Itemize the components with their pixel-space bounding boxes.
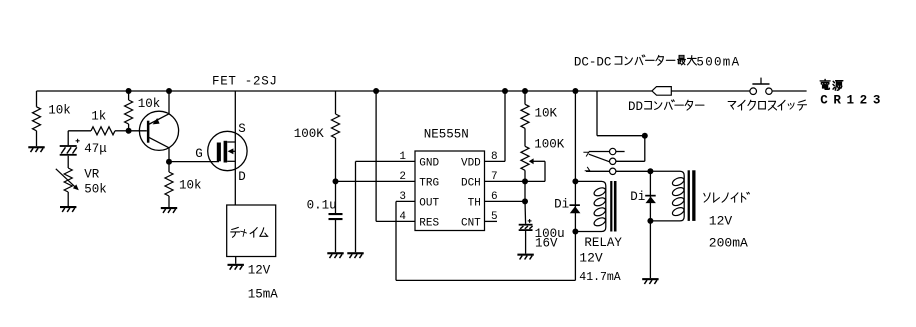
wire pin7 DCH bbox=[485, 180, 526, 182]
wire pin5 CNT stub bbox=[485, 220, 498, 222]
node rail junction at Q1 emitter bbox=[166, 88, 172, 94]
wire base node to Q1 bbox=[129, 130, 147, 132]
solenoid core bbox=[688, 170, 690, 221]
svg-text:16V: 16V bbox=[535, 236, 558, 250]
capacitor C1 47u electrolytic bbox=[60, 145, 77, 147]
node rail junction at pin4 riser bbox=[373, 88, 379, 94]
transistor Q1 PNP bbox=[139, 111, 178, 150]
svg-text:RES: RES bbox=[419, 217, 439, 229]
node solenoid bottom junction bbox=[647, 218, 653, 224]
label saidai kanji bbox=[678, 55, 697, 64]
svg-text:100K: 100K bbox=[294, 127, 325, 141]
node TRG junction bbox=[333, 178, 339, 184]
potentiometer VR1 50k bbox=[64, 168, 72, 192]
wire VR1 to ground bbox=[67, 192, 69, 206]
svg-text:500mA: 500mA bbox=[696, 55, 740, 69]
resistor R6 10K bbox=[521, 104, 529, 128]
label DC-DC konbata katakana bbox=[615, 55, 675, 65]
label chime katakana chaimu bbox=[231, 227, 268, 237]
wire FET source-drain vertical bbox=[234, 91, 236, 205]
node base junction bbox=[126, 128, 132, 134]
capacitor C3 100u electrolytic bbox=[519, 224, 533, 226]
wire C2 to ground bbox=[335, 220, 337, 252]
svg-text:Di: Di bbox=[554, 198, 569, 212]
svg-text:OUT: OUT bbox=[419, 197, 439, 209]
node relay top junction bbox=[572, 178, 578, 184]
svg-text:FET -2SJ: FET -2SJ bbox=[212, 75, 278, 89]
svg-text:RELAY: RELAY bbox=[584, 236, 622, 250]
svg-text:0.1u: 0.1u bbox=[307, 198, 337, 212]
label DD konbata katakana bbox=[645, 100, 704, 110]
node DCH junction bbox=[522, 178, 528, 184]
wire pin6 TH bbox=[485, 200, 526, 202]
svg-text:TRG: TRG bbox=[419, 177, 439, 189]
svg-text:200mA: 200mA bbox=[709, 235, 748, 250]
wire chime to ground bbox=[235, 257, 237, 264]
wire rail to relay common bbox=[597, 91, 645, 136]
node TH junction bbox=[522, 198, 528, 204]
svg-text:DCH: DCH bbox=[461, 177, 481, 189]
wire R6 to VR2 bbox=[524, 128, 526, 146]
svg-text:VDD: VDD bbox=[461, 157, 481, 169]
svg-text:CNT: CNT bbox=[461, 217, 481, 229]
svg-text:G: G bbox=[195, 147, 203, 161]
ground under solenoid bbox=[642, 278, 658, 280]
wire pin4 RES to rail bbox=[376, 91, 415, 221]
svg-text:GND: GND bbox=[419, 157, 439, 169]
node rail junction at 10K chain bbox=[522, 88, 528, 94]
wire rail to R1 bbox=[36, 91, 38, 107]
node relay bottom junction bbox=[572, 229, 578, 235]
ground under C2 bbox=[327, 252, 343, 254]
label solenoid katakana sorenoido bbox=[704, 192, 750, 202]
switch SW1 microswitch bbox=[750, 88, 757, 95]
relay contact blade bbox=[589, 154, 610, 162]
ground under chime bbox=[228, 264, 244, 266]
wire solenoid top to bottom through D2 bbox=[649, 171, 651, 221]
wire C1 top to 1k bbox=[68, 131, 91, 146]
diode D1 Di bbox=[570, 204, 580, 206]
relay contact terminal middle bbox=[610, 158, 616, 164]
wire relay top to bottom through D1 bbox=[574, 181, 576, 231]
wire VR2 to DCH node bbox=[524, 170, 526, 181]
inductor K1 relay coil bbox=[575, 181, 605, 231]
svg-text:12V: 12V bbox=[709, 214, 733, 229]
relay contact NO line bbox=[586, 170, 610, 172]
resistor R4 10k bbox=[165, 172, 173, 196]
svg-text:VR: VR bbox=[84, 168, 100, 182]
svg-text:41.7mA: 41.7mA bbox=[579, 271, 621, 284]
svg-text:DD: DD bbox=[628, 100, 643, 114]
wire R5 to TRG node bbox=[335, 138, 337, 213]
svg-text:10k: 10k bbox=[138, 97, 161, 111]
wire VCC rail bbox=[37, 90, 807, 92]
inductor L1 solenoid coil bbox=[650, 171, 684, 221]
connector DD converter tag bbox=[652, 87, 671, 96]
wire R1 to ground bbox=[36, 131, 38, 146]
wire rail to Q1 emitter bbox=[168, 91, 170, 114]
diode D2 Di bbox=[645, 195, 656, 197]
wire pin8 VDD to rail bbox=[485, 91, 506, 161]
relay contact NC stub bbox=[616, 151, 625, 153]
component chime box bbox=[227, 205, 276, 257]
svg-text:DC-DC: DC-DC bbox=[574, 55, 612, 69]
svg-text:Di: Di bbox=[630, 190, 645, 204]
label U1 pin numbers bbox=[399, 151, 497, 223]
node rail junction at R3 bbox=[126, 88, 132, 94]
wire pin2 TRG bbox=[336, 180, 416, 182]
node Q1 collector junction bbox=[166, 159, 172, 165]
label microswitch katakana maikurosuicchi bbox=[728, 100, 806, 110]
ground under R1 bbox=[28, 146, 44, 148]
node solenoid top junction bbox=[647, 168, 653, 174]
potentiometer VR2 100K bbox=[521, 146, 529, 170]
wire collector node to FET gate bbox=[169, 161, 219, 163]
svg-text:50k: 50k bbox=[84, 183, 107, 197]
wire relay bottom to OUT route bbox=[574, 232, 576, 281]
resistor R2 1k bbox=[91, 127, 115, 135]
wire TH node to C3 bbox=[524, 201, 527, 224]
node rail junction at relay branch bbox=[572, 88, 578, 94]
transistor U2 P-channel MOSFET FET-2SJ bbox=[208, 131, 247, 170]
ground under C3 bbox=[517, 254, 533, 256]
wire DCH to TH node bbox=[524, 181, 526, 201]
svg-text:10k: 10k bbox=[48, 104, 71, 118]
wire R4 to ground bbox=[168, 196, 170, 207]
svg-text:NE555N: NE555N bbox=[424, 127, 469, 141]
wire pin1 GND to ground bbox=[356, 161, 416, 252]
label U1 pin names bbox=[419, 157, 481, 229]
resistor R5 100K bbox=[332, 114, 340, 138]
relay contact terminal bottom bbox=[610, 168, 616, 174]
wire NO contact to solenoid bbox=[616, 170, 651, 172]
label dengen kanji bbox=[820, 80, 843, 91]
wire rail to R6 bbox=[524, 91, 526, 104]
node rail junction at pin8 riser bbox=[502, 88, 508, 94]
wire rail to R3 bbox=[128, 91, 130, 100]
wire Q1 collector to node bbox=[168, 148, 170, 162]
relay contact pivot mark bbox=[583, 152, 588, 156]
wire C1 to VR1 bbox=[67, 156, 69, 168]
svg-text:10K: 10K bbox=[535, 106, 558, 120]
wire rail to R5 bbox=[335, 91, 337, 114]
relay contact NC line bbox=[589, 151, 610, 153]
wire node to R4 bbox=[168, 162, 170, 172]
svg-text:15mA: 15mA bbox=[248, 288, 279, 302]
svg-text:1k: 1k bbox=[91, 109, 106, 123]
wire R2 to base node bbox=[115, 130, 129, 132]
wire R3 to base node bbox=[128, 124, 130, 131]
svg-text:12V: 12V bbox=[579, 250, 603, 265]
wire pin3 OUT route bbox=[396, 201, 575, 280]
wire solenoid bottom to ground bbox=[649, 221, 651, 278]
svg-text:TH: TH bbox=[468, 197, 481, 209]
resistor R3 10k bbox=[125, 100, 133, 124]
relay contact NO mark bbox=[585, 167, 590, 171]
relay contact terminal top bbox=[610, 148, 616, 154]
resistor R1 10k bbox=[33, 107, 41, 131]
relay core bbox=[610, 181, 612, 232]
svg-text:D: D bbox=[238, 170, 246, 184]
svg-text:100K: 100K bbox=[534, 137, 565, 151]
svg-text:CR123: CR123 bbox=[820, 94, 886, 108]
ground under VR1 bbox=[60, 206, 76, 208]
wire feed down to common contact bbox=[616, 136, 645, 162]
wire C3 to ground bbox=[525, 231, 527, 254]
ground under R4 bbox=[161, 207, 177, 209]
wire rail to relay top node bbox=[574, 91, 576, 181]
ground under pin1 bbox=[347, 252, 363, 254]
svg-text:S: S bbox=[238, 122, 246, 136]
svg-text:47μ: 47μ bbox=[84, 142, 107, 156]
svg-text:10k: 10k bbox=[179, 178, 202, 192]
node contact feed junction bbox=[642, 133, 648, 139]
svg-text:12V: 12V bbox=[248, 263, 271, 277]
capacitor C2 0.1u bbox=[329, 213, 343, 215]
op-amp U1 NE555N body bbox=[415, 151, 485, 231]
